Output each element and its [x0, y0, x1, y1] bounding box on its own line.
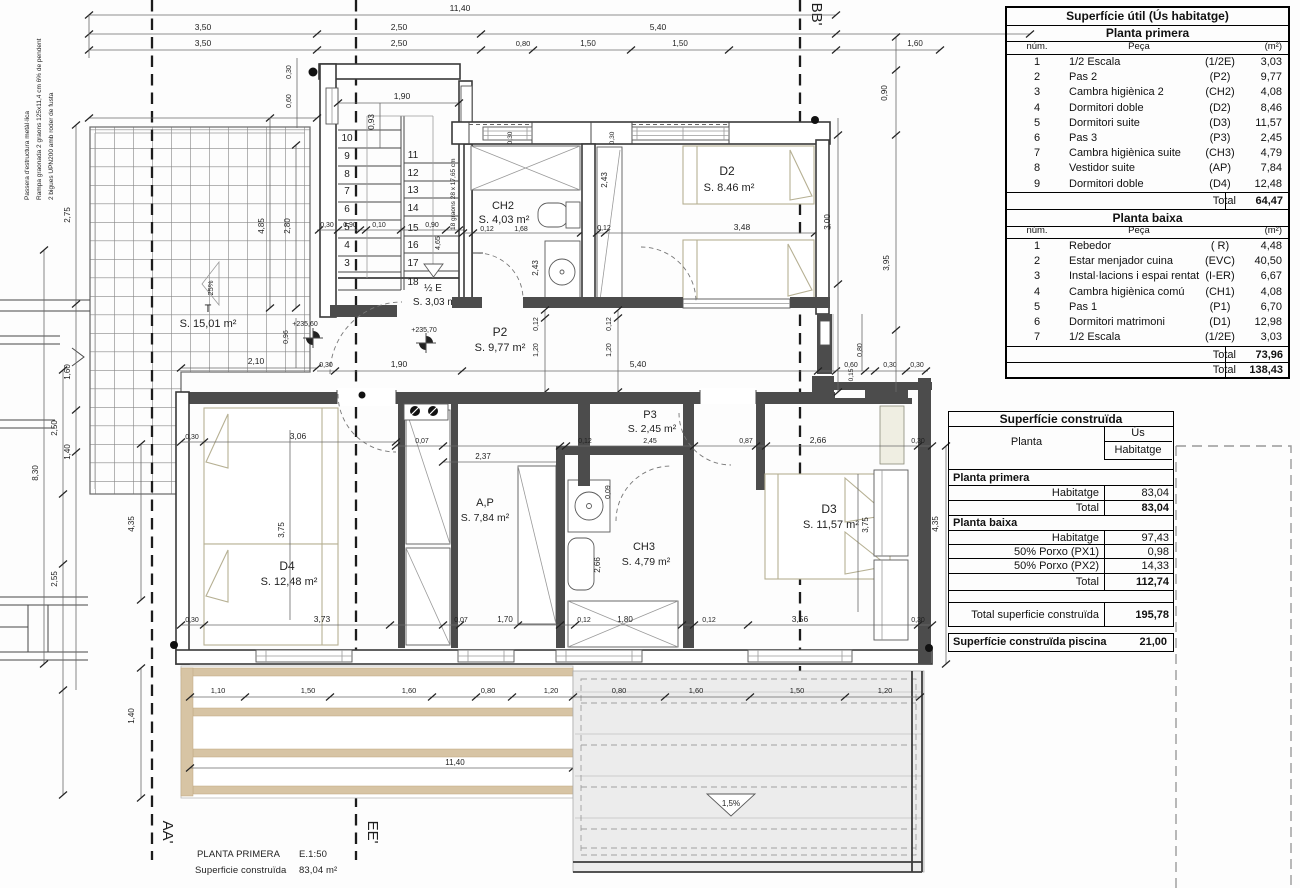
- svg-text:2,80: 2,80: [283, 218, 292, 234]
- svg-text:1,20: 1,20: [878, 686, 893, 695]
- svg-text:1,20: 1,20: [606, 343, 613, 357]
- svg-text:0,07: 0,07: [454, 617, 468, 624]
- svg-text:1,20: 1,20: [544, 686, 559, 695]
- svg-text:D2: D2: [719, 164, 735, 178]
- svg-text:18: 18: [407, 277, 419, 288]
- svg-text:4,35: 4,35: [127, 516, 136, 532]
- svg-text:CH3: CH3: [633, 541, 655, 553]
- svg-text:+235,70: +235,70: [411, 327, 437, 334]
- svg-text:0,30: 0,30: [911, 438, 925, 445]
- svg-text:S. 4,79 m²: S. 4,79 m²: [622, 556, 671, 568]
- svg-text:1,50: 1,50: [672, 39, 688, 48]
- svg-text:2,45: 2,45: [643, 438, 657, 445]
- svg-text:P2: P2: [493, 325, 508, 339]
- svg-text:S. 4,03 m²: S. 4,03 m²: [479, 214, 530, 226]
- svg-text:0,30: 0,30: [609, 131, 616, 144]
- svg-text:CH2: CH2: [492, 200, 514, 212]
- svg-text:P3: P3: [643, 409, 656, 421]
- svg-text:0,12: 0,12: [533, 317, 540, 331]
- svg-text:0,30: 0,30: [320, 222, 334, 229]
- svg-text:0,12: 0,12: [578, 438, 592, 445]
- svg-text:0,07: 0,07: [415, 438, 429, 445]
- svg-text:17: 17: [407, 258, 419, 269]
- svg-text:0,30: 0,30: [910, 362, 924, 369]
- svg-text:1,70: 1,70: [497, 615, 513, 624]
- svg-text:3,56: 3,56: [792, 614, 809, 624]
- svg-text:0,12: 0,12: [702, 617, 716, 624]
- svg-text:0,60: 0,60: [286, 94, 293, 108]
- svg-text:0,93: 0,93: [367, 114, 376, 130]
- svg-text:0,12: 0,12: [597, 225, 611, 232]
- svg-text:0,30: 0,30: [883, 362, 897, 369]
- svg-text:0,09: 0,09: [605, 485, 612, 499]
- svg-text:1,50: 1,50: [580, 39, 596, 48]
- svg-text:1,5%: 1,5%: [722, 799, 740, 808]
- svg-text:4,35: 4,35: [931, 516, 940, 532]
- svg-text:2,66: 2,66: [593, 557, 602, 573]
- svg-text:3,48: 3,48: [734, 222, 751, 232]
- svg-text:S. 8.46 m²: S. 8.46 m²: [704, 182, 755, 194]
- svg-text:14: 14: [407, 203, 419, 214]
- svg-text:S. 15,01 m²: S. 15,01 m²: [180, 318, 237, 330]
- svg-text:1,50: 1,50: [301, 686, 316, 695]
- svg-text:AA': AA': [159, 821, 176, 844]
- svg-text:4,65: 4,65: [435, 236, 442, 250]
- svg-text:2,55: 2,55: [50, 571, 59, 587]
- svg-text:16: 16: [407, 240, 419, 251]
- svg-text:4,85: 4,85: [257, 218, 266, 234]
- svg-text:11,40: 11,40: [450, 3, 471, 13]
- svg-text:Rampa graonada 2 graons 125x11: Rampa graonada 2 graons 125x11,4 cm 6% d…: [36, 38, 43, 200]
- svg-text:18 graons 28 x 17,65 cm: 18 graons 28 x 17,65 cm: [450, 158, 457, 230]
- svg-text:0,30: 0,30: [185, 617, 199, 624]
- svg-text:D3: D3: [821, 502, 837, 516]
- svg-text:0,12: 0,12: [577, 617, 591, 624]
- svg-text:1,20: 1,20: [533, 343, 540, 357]
- svg-text:EE': EE': [364, 821, 381, 844]
- svg-text:3: 3: [344, 258, 350, 269]
- svg-text:0,30: 0,30: [319, 362, 333, 369]
- svg-text:2,37: 2,37: [475, 452, 491, 461]
- svg-text:8: 8: [344, 169, 350, 180]
- svg-text:1,40: 1,40: [127, 708, 136, 724]
- svg-text:0,90: 0,90: [343, 222, 357, 229]
- svg-text:3,95: 3,95: [882, 255, 891, 271]
- svg-text:6: 6: [344, 204, 350, 215]
- svg-text:1,68: 1,68: [514, 226, 528, 233]
- svg-text:3,06: 3,06: [290, 431, 307, 441]
- svg-text:0,60: 0,60: [844, 362, 858, 369]
- svg-text:2,10: 2,10: [248, 356, 265, 366]
- svg-text:0,80: 0,80: [516, 39, 531, 48]
- svg-text:0,15: 0,15: [848, 368, 855, 381]
- svg-text:25%: 25%: [206, 280, 215, 295]
- svg-text:11: 11: [408, 150, 419, 161]
- svg-text:5,40: 5,40: [650, 22, 667, 32]
- svg-text:3,73: 3,73: [314, 614, 331, 624]
- svg-text:S. 11,57 m²: S. 11,57 m²: [803, 519, 859, 531]
- svg-text:D4: D4: [279, 559, 295, 573]
- svg-text:BB': BB': [808, 3, 825, 26]
- svg-text:2 bigues UPN200 amb roder de f: 2 bigues UPN200 amb roder de fusta: [48, 92, 55, 200]
- svg-text:A,P: A,P: [476, 497, 494, 509]
- svg-text:0,80: 0,80: [481, 686, 496, 695]
- svg-text:15: 15: [407, 223, 419, 234]
- svg-text:Superficie construïda: Superficie construïda: [195, 865, 287, 876]
- svg-text:0,87: 0,87: [739, 438, 753, 445]
- svg-text:1,10: 1,10: [211, 686, 226, 695]
- svg-text:2,50: 2,50: [391, 38, 408, 48]
- svg-text:0,10: 0,10: [372, 222, 386, 229]
- svg-text:S. 12,48 m²: S. 12,48 m²: [261, 576, 318, 588]
- svg-text:3,75: 3,75: [861, 517, 870, 533]
- svg-text:½ E: ½ E: [424, 283, 442, 294]
- svg-text:1,60: 1,60: [402, 686, 417, 695]
- svg-text:2,50: 2,50: [391, 22, 408, 32]
- svg-text:9: 9: [344, 151, 350, 162]
- svg-text:0,12: 0,12: [480, 226, 494, 233]
- svg-text:0,80: 0,80: [612, 686, 627, 695]
- svg-text:2,75: 2,75: [63, 207, 72, 223]
- svg-text:0,90: 0,90: [425, 222, 439, 229]
- svg-text:5,40: 5,40: [630, 359, 647, 369]
- svg-text:0,30: 0,30: [286, 65, 293, 79]
- svg-text:13: 13: [407, 185, 419, 196]
- svg-text:Passera d'estructura metàl·lic: Passera d'estructura metàl·lica: [24, 111, 31, 200]
- svg-text:0,80: 0,80: [857, 343, 864, 357]
- svg-text:12: 12: [407, 168, 419, 179]
- svg-text:S. 2,45 m²: S. 2,45 m²: [628, 423, 677, 435]
- svg-text:8,30: 8,30: [31, 465, 40, 481]
- svg-text:2,43: 2,43: [531, 260, 540, 276]
- svg-text:3,00: 3,00: [823, 214, 832, 230]
- svg-text:3,75: 3,75: [277, 522, 286, 538]
- svg-text:0,30: 0,30: [185, 434, 199, 441]
- svg-text:2,50: 2,50: [50, 420, 59, 436]
- svg-text:T: T: [205, 303, 212, 315]
- svg-text:0,30: 0,30: [911, 617, 925, 624]
- svg-text:0,12: 0,12: [606, 317, 613, 331]
- svg-text:1,90: 1,90: [394, 91, 411, 101]
- svg-text:3,50: 3,50: [195, 22, 212, 32]
- svg-text:E.1:50: E.1:50: [299, 849, 327, 860]
- svg-text:2,66: 2,66: [810, 435, 827, 445]
- svg-text:1,50: 1,50: [790, 686, 805, 695]
- svg-text:1,90: 1,90: [391, 359, 408, 369]
- svg-text:1,60: 1,60: [63, 364, 72, 380]
- svg-text:S. 7,84 m²: S. 7,84 m²: [461, 512, 510, 524]
- svg-text:83,04 m²: 83,04 m²: [299, 865, 337, 876]
- svg-text:10: 10: [341, 133, 353, 144]
- svg-text:4: 4: [344, 240, 350, 251]
- svg-text:3,50: 3,50: [195, 38, 212, 48]
- svg-text:0,30: 0,30: [507, 131, 514, 144]
- svg-text:2,43: 2,43: [600, 172, 609, 188]
- svg-text:0,90: 0,90: [880, 85, 889, 101]
- svg-text:1,80: 1,80: [617, 615, 633, 624]
- svg-text:1,60: 1,60: [907, 39, 923, 48]
- svg-text:PLANTA PRIMERA: PLANTA PRIMERA: [197, 849, 281, 860]
- svg-text:1,40: 1,40: [63, 444, 72, 460]
- svg-text:11,40: 11,40: [445, 758, 465, 767]
- svg-text:1,60: 1,60: [689, 686, 704, 695]
- svg-text:0,96: 0,96: [283, 330, 290, 344]
- svg-text:S. 9,77 m²: S. 9,77 m²: [475, 342, 526, 354]
- svg-text:7: 7: [344, 186, 350, 197]
